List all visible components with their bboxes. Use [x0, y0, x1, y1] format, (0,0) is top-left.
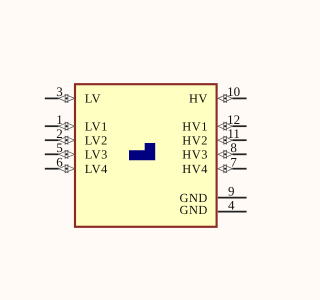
pin number 7	[230, 155, 237, 170]
pin 5 wire (LV3)	[45, 153, 59, 155]
svg-text:1: 1	[56, 112, 63, 127]
pin 2 bidirectional arrow symbol	[59, 136, 75, 144]
pin 2 wire (LV2)	[45, 139, 59, 141]
svg-text:12: 12	[227, 112, 240, 127]
pin 3 wire (LV)	[45, 97, 59, 99]
pin 3 bidirectional arrow symbol	[59, 94, 75, 102]
pin name LV	[85, 92, 101, 106]
svg-text:4: 4	[228, 198, 235, 213]
pin name HV	[189, 92, 208, 106]
svg-text:GND: GND	[180, 203, 208, 217]
pin name GND	[180, 191, 208, 205]
pin number 12	[227, 112, 240, 127]
svg-text:3: 3	[56, 84, 63, 99]
pin name HV4	[182, 162, 208, 176]
pin number 9	[228, 184, 235, 199]
pin 12 wire (HV1)	[232, 125, 246, 127]
svg-text:HV2: HV2	[182, 134, 208, 148]
pin number 11	[227, 126, 240, 141]
pin 8 bidirectional arrow symbol	[218, 150, 233, 158]
pin 8 wire (HV3)	[232, 153, 246, 155]
svg-text:9: 9	[228, 184, 235, 199]
svg-text:LV2: LV2	[85, 134, 108, 148]
svg-text:6: 6	[56, 155, 63, 170]
svg-text:HV1: HV1	[182, 120, 208, 134]
svg-text:HV3: HV3	[182, 148, 208, 162]
pin 5 bidirectional arrow symbol	[59, 150, 75, 158]
svg-text:LV: LV	[85, 92, 101, 106]
pin number 4	[228, 198, 235, 213]
pin name GND	[180, 203, 208, 217]
pin name LV4	[85, 162, 108, 176]
pin 9 wire (GND)	[218, 197, 247, 199]
pin name HV3	[182, 148, 208, 162]
pin number 6	[56, 155, 63, 170]
svg-text:7: 7	[230, 155, 237, 170]
svg-text:LV4: LV4	[85, 162, 108, 176]
svg-text:2: 2	[56, 126, 63, 141]
pin 1 wire (LV1)	[45, 125, 59, 127]
pin number 1	[56, 112, 63, 127]
pin name LV1	[85, 120, 108, 134]
svg-text:HV4: HV4	[182, 162, 208, 176]
pin name LV2	[85, 134, 108, 148]
svg-text:11: 11	[227, 126, 240, 141]
pin name HV1	[182, 120, 208, 134]
svg-text:LV1: LV1	[85, 120, 108, 134]
svg-text:LV3: LV3	[85, 148, 108, 162]
pin number 10	[227, 84, 240, 99]
pin 7 wire (HV4)	[232, 168, 246, 170]
pin 7 bidirectional arrow symbol	[218, 165, 233, 173]
pin name HV2	[182, 134, 208, 148]
pin 11 wire (HV2)	[232, 139, 246, 141]
pin 6 wire (LV4)	[45, 168, 59, 170]
pin number 5	[56, 140, 63, 155]
IC body U1	[75, 84, 217, 227]
pin number 8	[230, 140, 237, 155]
pin number 3	[56, 84, 63, 99]
svg-text:5: 5	[56, 140, 63, 155]
pin name LV3	[85, 148, 108, 162]
pin 10 bidirectional arrow symbol	[218, 94, 233, 102]
pin 10 wire (HV)	[232, 97, 246, 99]
pin 11 bidirectional arrow symbol	[218, 136, 233, 144]
svg-text:8: 8	[230, 140, 237, 155]
pin 1 bidirectional arrow symbol	[59, 122, 75, 130]
pin 4 wire (GND)	[218, 211, 247, 213]
pin 6 bidirectional arrow symbol	[59, 165, 75, 173]
svg-text:10: 10	[227, 84, 240, 99]
pin number 2	[56, 126, 63, 141]
svg-text:HV: HV	[189, 92, 208, 106]
logo marker (navy step shape)	[129, 143, 155, 160]
pin 12 bidirectional arrow symbol	[218, 122, 233, 130]
